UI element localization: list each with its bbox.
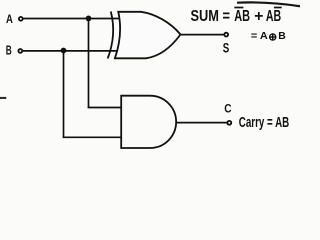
overbar on B of second AB [274,7,282,9]
input terminal B [18,49,22,53]
scan artifact top-right stroke [237,2,300,6]
wire A tap to AND top input [88,107,122,109]
xor symbol circle-plus [270,34,276,40]
wire B to XOR [23,50,118,52]
svg-text:S: S [223,39,230,55]
junction on A wire [86,16,92,22]
wire AND output [176,122,227,124]
XOR gate U1 body [115,12,181,59]
svg-text:A: A [6,12,13,26]
scan artifact left-edge dash [0,97,6,99]
svg-text:+: + [254,8,263,25]
XOR gate U1 input arc [108,12,113,59]
wire XOR output [181,34,225,36]
junction on B wire [61,48,67,54]
svg-text:SUM =: SUM = [191,8,231,25]
svg-text:B: B [278,31,286,42]
svg-text:B: B [6,42,12,57]
svg-text:Carry = AB: Carry = AB [239,114,289,131]
wire A tap vertical [88,18,90,107]
output terminal C [227,121,231,125]
input terminal A [19,17,23,21]
AND gate U2 body [121,96,176,148]
overbar on A of first AB [234,7,243,9]
wire B tap vertical [63,51,65,138]
svg-text:C: C [224,101,232,115]
svg-text:AB: AB [234,8,250,25]
wire B tap to AND bottom input [63,136,122,138]
svg-text:= A: = A [251,31,268,42]
output terminal S [224,33,228,37]
wire A to XOR [24,18,120,20]
svg-text:AB: AB [266,8,281,25]
